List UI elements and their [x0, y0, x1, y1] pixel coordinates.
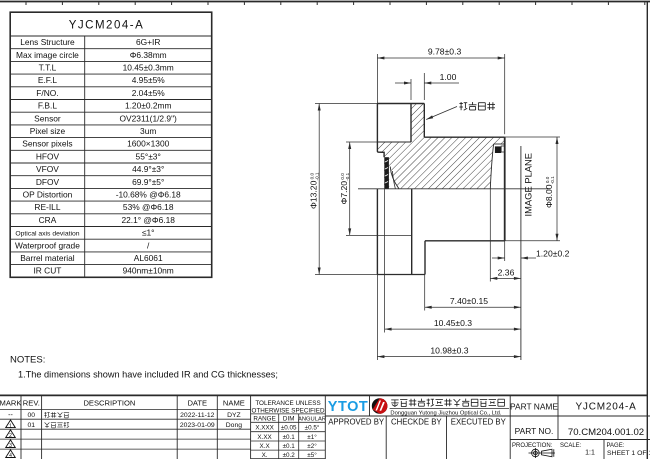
dim phi7.20 — [349, 142, 351, 235]
svg-text:NOTES:: NOTES: — [10, 355, 45, 366]
svg-text:Dongguan Yutong Jiuzhou Optica: Dongguan Yutong Jiuzhou Optical Co., Ltd… — [390, 411, 501, 417]
spec table rows text — [15, 37, 181, 276]
svg-text:Lens Structure: Lens Structure — [20, 37, 75, 47]
svg-text:CHECKDE BY: CHECKDE BY — [391, 418, 442, 427]
dim phi13.20 — [318, 104, 320, 275]
svg-text:NAME: NAME — [223, 398, 245, 407]
svg-text:±0.2: ±0.2 — [283, 452, 296, 459]
approver headers — [328, 418, 506, 427]
svg-text:DYZ: DYZ — [227, 412, 241, 419]
svg-text:3um: 3um — [140, 126, 156, 136]
svg-text:YTOT: YTOT — [328, 399, 368, 415]
svg-text:±0.05: ±0.05 — [281, 425, 297, 432]
svg-text:PROJECTION:: PROJECTION: — [512, 443, 553, 449]
svg-text:IR CUT: IR CUT — [33, 266, 61, 276]
svg-text:940nm±10nm: 940nm±10nm — [123, 266, 174, 276]
svg-text:PAGE:: PAGE: — [607, 443, 625, 449]
svg-text:IMAGE PLANE: IMAGE PLANE — [523, 153, 534, 217]
svg-text:10.45±0.3: 10.45±0.3 — [434, 318, 472, 328]
svg-text:7.40±0.15: 7.40±0.15 — [450, 296, 488, 306]
svg-text:YJCM204-A: YJCM204-A — [575, 402, 636, 413]
tolerance table grid — [251, 395, 326, 459]
svg-text:70.CM204.001.02: 70.CM204.001.02 — [568, 427, 644, 438]
svg-text:6G+IR: 6G+IR — [136, 37, 160, 47]
dim 10.98 — [377, 356, 521, 358]
svg-text:REV.: REV. — [23, 398, 40, 407]
svg-text:2: 2 — [9, 433, 12, 439]
dim 1.20 extension line — [504, 241, 506, 261]
svg-text:X.XX: X.XX — [257, 434, 272, 441]
dim phi8.00 — [556, 137, 558, 241]
svg-text:ANGULAR: ANGULAR — [298, 416, 326, 422]
revision table grid — [0, 395, 251, 459]
svg-text:±2°: ±2° — [307, 442, 317, 450]
dim 9.78 — [377, 57, 504, 59]
divider under CN name — [390, 407, 509, 409]
svg-text:F/NO.: F/NO. — [36, 88, 58, 98]
svg-text:X.X: X.X — [260, 443, 271, 450]
svg-text:-10.68% @Φ6.18: -10.68% @Φ6.18 — [116, 189, 181, 199]
svg-text:--: -- — [8, 412, 13, 419]
svg-text:1:1: 1:1 — [585, 450, 595, 457]
svg-text:69.9°±5°: 69.9°±5° — [132, 177, 164, 187]
title block top border — [0, 394, 647, 396]
svg-text:RANGE: RANGE — [253, 415, 275, 422]
svg-text:Φ6.38mm: Φ6.38mm — [130, 50, 167, 60]
svg-text:CRA: CRA — [39, 215, 57, 225]
svg-text:OTHERWISE SPECIFIED: OTHERWISE SPECIFIED — [251, 408, 324, 415]
sheet top border — [0, 1, 650, 3]
svg-text:1: 1 — [9, 423, 12, 429]
company name CN — [391, 399, 504, 407]
svg-text:Φ7.20 0.0-0.1: Φ7.20 0.0-0.1 — [339, 172, 350, 204]
svg-text:Dong: Dong — [226, 422, 242, 429]
centerline (optical axis) — [358, 188, 548, 190]
svg-text:T.T.L: T.T.L — [39, 62, 57, 72]
svg-text:≤1°: ≤1° — [142, 228, 155, 238]
svg-text:OV2311(1/2.9"): OV2311(1/2.9") — [120, 113, 177, 123]
svg-text:Φ8.00 0.0-0.1: Φ8.00 0.0-0.1 — [544, 176, 555, 208]
dim 2.36 — [490, 277, 521, 279]
image plane line — [520, 146, 522, 360]
body outlines — [377, 104, 504, 275]
svg-text:Optical axis deviation: Optical axis deviation — [15, 231, 79, 238]
dim 1.00 — [395, 82, 411, 84]
rev triangle 1 — [6, 420, 16, 428]
lens body section hatch — [377, 104, 504, 189]
svg-text:10.98±0.3: 10.98±0.3 — [430, 345, 468, 355]
svg-text:HFOV: HFOV — [36, 151, 60, 161]
tolerance table text — [251, 400, 326, 459]
svg-text:SHEET 1 OF 1: SHEET 1 OF 1 — [607, 450, 650, 457]
svg-text:1.20±0.2mm: 1.20±0.2mm — [125, 101, 172, 111]
svg-text:4: 4 — [9, 453, 12, 459]
svg-text:TOLERANCE UNLESS: TOLERANCE UNLESS — [255, 400, 320, 407]
svg-text:SCALE:: SCALE: — [560, 443, 582, 449]
dim 10.45 — [385, 328, 521, 330]
svg-text:MARK: MARK — [0, 398, 21, 407]
dim phi7.20 extension lines — [346, 141, 377, 143]
svg-text:APPROVED BY: APPROVED BY — [328, 418, 385, 427]
svg-text:±0.1: ±0.1 — [283, 434, 296, 441]
revision row 01 — [28, 422, 243, 429]
dim 7.40 extension line — [424, 275, 426, 311]
svg-text:RE-ILL: RE-ILL — [34, 202, 60, 212]
svg-text:Barrel material: Barrel material — [20, 253, 75, 263]
svg-text:1.20±0.2: 1.20±0.2 — [536, 249, 570, 259]
rev triangle 3 — [6, 440, 16, 448]
svg-text:±0.5°: ±0.5° — [305, 424, 320, 432]
revision row 00 — [8, 412, 241, 419]
svg-text:E.F.L: E.F.L — [38, 75, 57, 85]
spec table grid — [10, 36, 212, 277]
svg-text:PART NO.: PART NO. — [515, 426, 554, 436]
svg-text:YJCM204-A: YJCM204-A — [69, 20, 145, 32]
svg-text:X.: X. — [262, 452, 268, 459]
svg-text:1.00: 1.00 — [440, 72, 457, 82]
border zone ticks — [26, 2, 645, 5]
svg-text:2022-11-12: 2022-11-12 — [180, 412, 214, 419]
dim 1.20 — [492, 257, 505, 259]
svg-text:10.45±0.3mm: 10.45±0.3mm — [123, 62, 174, 72]
svg-text:DESCRIPTION: DESCRIPTION — [83, 398, 135, 407]
svg-text:±5°: ±5° — [307, 451, 317, 459]
svg-text:PART NAME: PART NAME — [510, 401, 558, 411]
svg-text:Sensor pixels: Sensor pixels — [22, 139, 72, 149]
svg-text:44.9°±3°: 44.9°±3° — [132, 164, 164, 174]
svg-text:1600×1300: 1600×1300 — [127, 139, 169, 149]
dim phi8.00 extension lines — [505, 136, 560, 138]
svg-text:00: 00 — [28, 412, 36, 419]
dim 10.45 extension line — [384, 189, 386, 333]
revision table header — [0, 398, 245, 407]
svg-text:±0.1: ±0.1 — [283, 443, 296, 450]
rev triangle 2 — [6, 430, 16, 438]
svg-text:OP Distortion: OP Distortion — [23, 189, 73, 199]
dim 7.40 — [425, 306, 521, 308]
part name block grid — [510, 395, 650, 459]
IR filter (black) — [495, 146, 501, 153]
dim phi13.20 extension lines — [315, 103, 377, 105]
svg-text:4.95±5%: 4.95±5% — [132, 75, 166, 85]
svg-text:01: 01 — [28, 422, 36, 429]
svg-text:VFOV: VFOV — [36, 164, 59, 174]
svg-text:Sensor: Sensor — [34, 113, 61, 123]
sheet right border — [646, 2, 648, 459]
logo block divider lines — [325, 395, 650, 459]
svg-text:2.36: 2.36 — [498, 267, 515, 277]
svg-text:55°±3°: 55°±3° — [136, 151, 161, 161]
svg-text:2023-01-09: 2023-01-09 — [180, 422, 215, 429]
lock ring (white, unsectioned) — [377, 104, 411, 143]
svg-text:DATE: DATE — [187, 398, 207, 407]
svg-text:53% @Φ6.18: 53% @Φ6.18 — [123, 202, 174, 212]
svg-text:DFOV: DFOV — [36, 177, 60, 187]
dim 1.00 extension lines — [410, 79, 412, 100]
svg-text:Max image circle: Max image circle — [16, 50, 79, 60]
svg-text:9.78±0.3: 9.78±0.3 — [428, 47, 462, 57]
svg-text:2.04±5%: 2.04±5% — [132, 88, 166, 98]
svg-text:X.XXX: X.XXX — [255, 425, 274, 432]
rear filter pocket (white) — [490, 144, 504, 189]
company round logo — [372, 398, 388, 414]
thread band (dark) — [384, 157, 389, 189]
rev triangle 4 — [6, 450, 16, 458]
svg-text:AL6061: AL6061 — [134, 253, 163, 263]
svg-text:±1°: ±1° — [307, 433, 317, 441]
svg-text:1.The dimensions shown have in: 1.The dimensions shown have included IR … — [18, 370, 278, 380]
front lens element wedge (white) — [389, 167, 399, 189]
svg-text:Pixel size: Pixel size — [30, 126, 66, 136]
dim 9.78 extension lines — [376, 54, 378, 104]
svg-text:F.B.L: F.B.L — [38, 101, 57, 111]
dim 10.98 extension line — [376, 275, 378, 361]
svg-text:22.1° @Φ6.18: 22.1° @Φ6.18 — [121, 215, 175, 225]
svg-text:DIM: DIM — [283, 415, 295, 422]
svg-text:3: 3 — [9, 443, 12, 449]
leader laser engraving area — [426, 107, 457, 120]
svg-text:Φ13.20 0.0-0.1: Φ13.20 0.0-0.1 — [309, 172, 320, 209]
svg-text:Waterproof grade: Waterproof grade — [15, 240, 80, 250]
svg-text:EXECUTED BY: EXECUTED BY — [451, 418, 507, 427]
dim 2.36 extension line — [489, 189, 491, 282]
spec table frame — [10, 12, 212, 277]
projection symbol — [529, 448, 556, 458]
